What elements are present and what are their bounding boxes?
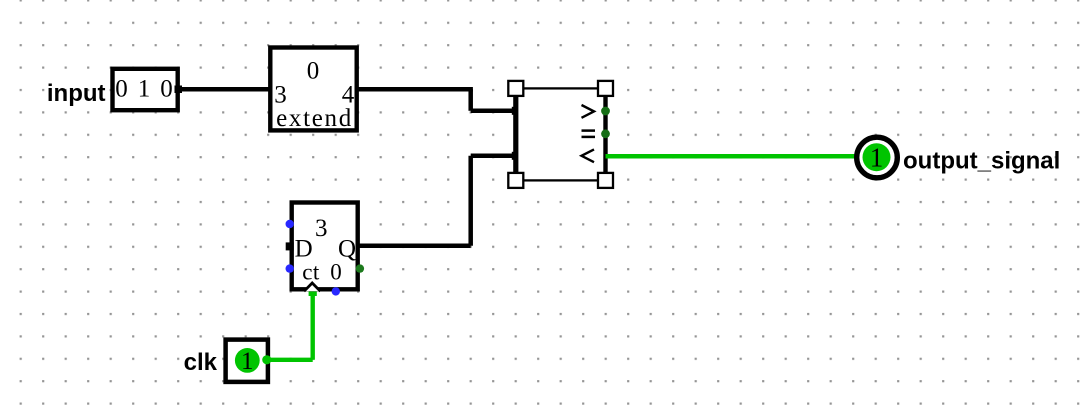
svg-text:0: 0 bbox=[330, 259, 342, 284]
input pin value 0 1 0 bbox=[115, 75, 173, 102]
input pin box bbox=[113, 69, 178, 110]
comparator output dot equal bbox=[601, 129, 610, 138]
svg-text:input: input bbox=[47, 80, 106, 107]
selection handle top-right bbox=[598, 81, 613, 96]
output pin output_signal bbox=[857, 137, 898, 178]
svg-text:ct: ct bbox=[302, 259, 320, 284]
svg-text:1: 1 bbox=[241, 348, 254, 375]
svg-text:0: 0 bbox=[115, 75, 128, 102]
clk input pin box bbox=[226, 340, 268, 382]
comparator U2 bbox=[516, 88, 606, 180]
green clock wire clk to counter bbox=[267, 292, 317, 360]
svg-text:0: 0 bbox=[307, 57, 320, 84]
selection handle top-left bbox=[508, 81, 523, 96]
counter pin D (black) bbox=[286, 242, 294, 250]
counter carry out dot (green) bbox=[356, 264, 364, 272]
green wire comparator less to output pin bbox=[606, 154, 857, 159]
svg-text:output_signal: output_signal bbox=[903, 148, 1060, 175]
counter U3 bbox=[292, 203, 358, 292]
svg-text:Q: Q bbox=[338, 235, 356, 262]
wire counter Q to comparator input B bbox=[358, 152, 520, 246]
svg-text:D: D bbox=[295, 235, 313, 262]
clk pin connection dot bbox=[262, 355, 271, 364]
selection handle bottom-right bbox=[598, 173, 613, 188]
svg-text:0: 0 bbox=[160, 75, 173, 102]
wire input to extender bbox=[175, 86, 273, 94]
svg-text:3: 3 bbox=[315, 215, 328, 242]
comparator output dot greater bbox=[601, 107, 610, 116]
svg-text:1: 1 bbox=[870, 143, 884, 173]
counter pin dot enable bottom (blue) bbox=[332, 287, 340, 295]
svg-text:clk: clk bbox=[184, 349, 218, 376]
wire extender to comparator input A bbox=[356, 89, 520, 115]
bit extender U1 bbox=[270, 48, 356, 132]
counter pin dot load (blue) bbox=[286, 220, 294, 228]
counter pin dot clear (blue) bbox=[286, 264, 294, 272]
svg-text:1: 1 bbox=[138, 75, 151, 102]
selection handle bottom-left bbox=[508, 173, 523, 188]
svg-text:extend: extend bbox=[276, 105, 353, 132]
